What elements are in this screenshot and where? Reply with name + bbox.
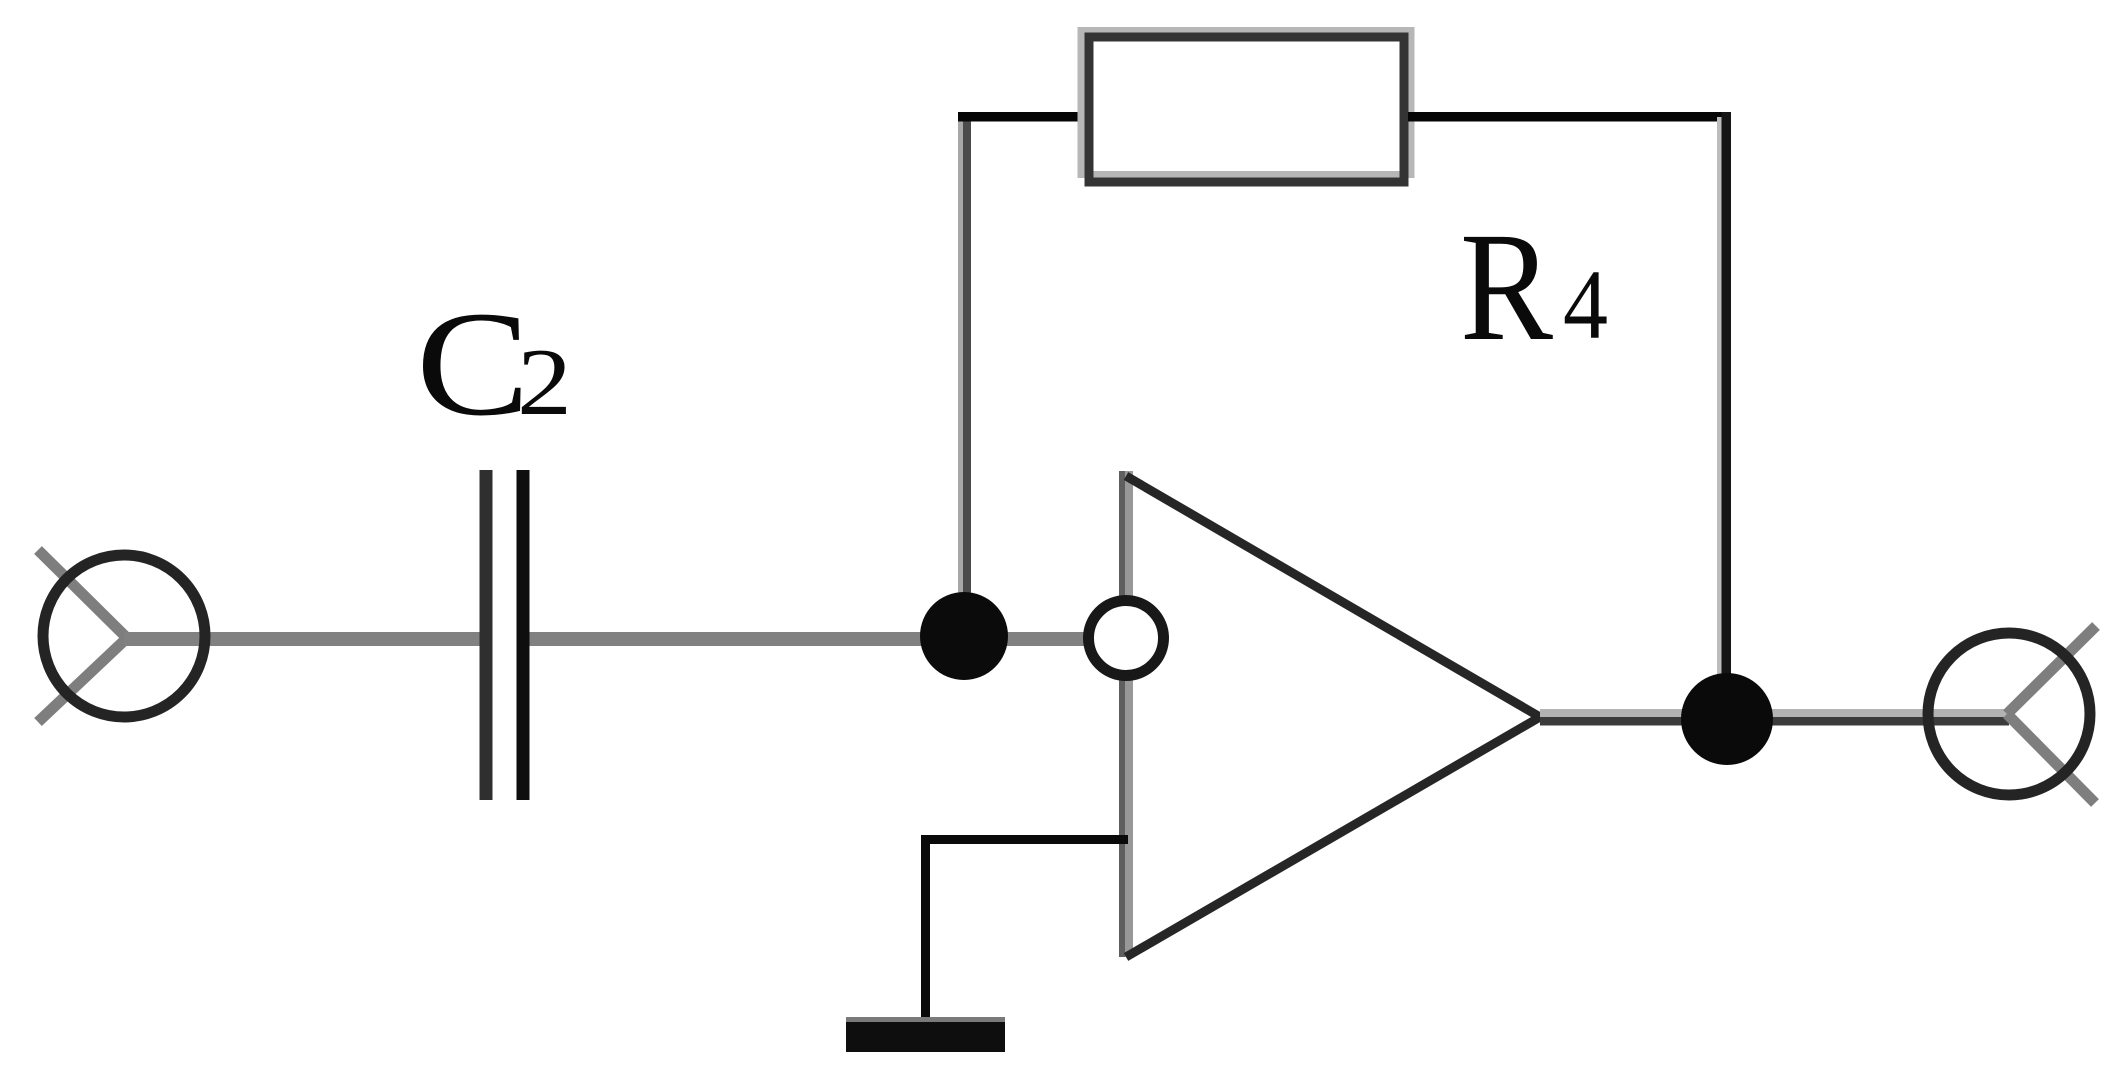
label C2 <box>416 281 572 447</box>
wire non-inverting input <box>921 835 1128 844</box>
svg-text:2: 2 <box>517 329 572 435</box>
wire feedback right vertical <box>1717 112 1731 685</box>
node input junction <box>920 592 1008 680</box>
wire output dark band <box>1540 717 2009 726</box>
node output junction <box>1681 673 1773 765</box>
wire output light band <box>1540 709 2009 717</box>
wire feedback top right <box>1408 112 1731 122</box>
op-amp inverting input bubble <box>1089 601 1164 676</box>
capacitor C2 <box>486 470 523 800</box>
input terminal J1 <box>38 550 127 722</box>
ground <box>846 1017 1005 1052</box>
wire input left segment <box>124 632 489 646</box>
input terminal ring <box>43 555 205 717</box>
label R4 <box>1460 200 1608 373</box>
output terminal J2 <box>1928 626 2096 803</box>
wire feedback top left <box>958 112 1086 122</box>
wire node vertical to feedback <box>958 112 971 640</box>
op-amp U1 <box>1119 471 1540 957</box>
wire input right segment <box>519 632 1086 646</box>
svg-text:R: R <box>1460 200 1553 373</box>
resistor R4 <box>1081 31 1411 183</box>
svg-text:C: C <box>416 281 530 447</box>
wire ground vertical <box>921 835 930 1022</box>
svg-text:4: 4 <box>1563 249 1608 360</box>
